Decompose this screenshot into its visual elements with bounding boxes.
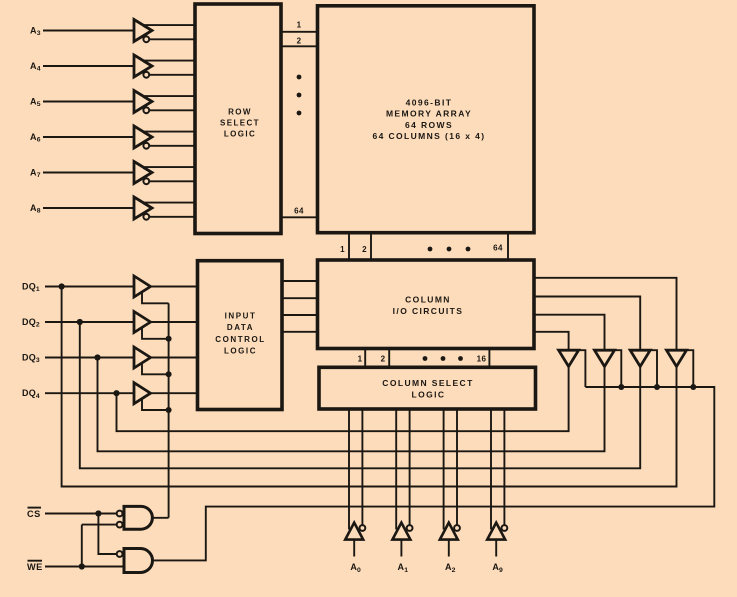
wire A1 true output (395, 409, 397, 530)
output buffer T1 (559, 350, 579, 366)
ellipsis dot array bottom 3 (466, 247, 471, 252)
wire A4 input (43, 65, 134, 67)
wire G1 output (152, 517, 168, 519)
svg-text:2: 2 (297, 36, 302, 45)
and-gate G1 (chip select / write) (124, 506, 152, 529)
ellipsis dot row 1 (297, 75, 302, 80)
bubble G2 input 1 (117, 551, 123, 557)
wire DQ1 input (45, 286, 134, 288)
output buffer T2 (595, 350, 615, 366)
wire A5 true output (144, 95, 196, 97)
wire output enable bus (153, 387, 715, 560)
wire A9 complement output (503, 409, 505, 525)
svg-text:LOGIC: LOGIC (224, 130, 256, 139)
buffer A0 (345, 523, 363, 540)
bubble A0 complement output (360, 525, 366, 531)
block COLUMN I/O CIRCUITS (318, 260, 535, 349)
wire A0 true output (348, 409, 350, 530)
wire A7 true output (144, 166, 196, 168)
svg-text:4096-BIT: 4096-BIT (406, 98, 453, 108)
svg-text:2: 2 (362, 245, 367, 254)
wire write enable vertical (168, 303, 170, 518)
svg-text:2: 2 (381, 355, 386, 364)
ellipsis dot row 3 (297, 111, 302, 116)
wire A8 input (43, 207, 134, 209)
svg-text:COLUMN: COLUMN (405, 295, 451, 305)
wire T3 enable stub (650, 350, 657, 387)
svg-text:CONTROL: CONTROL (215, 335, 265, 344)
wire column io out 2 (534, 297, 640, 351)
wire A9 true output (490, 409, 492, 530)
wire A7 complement output (149, 180, 195, 182)
wire DQ1 pin to output buffer (62, 287, 677, 487)
wire A1 input stub (400, 540, 402, 557)
bubble A2 complement output (454, 525, 460, 531)
wire DQ1 buffer enable step (142, 292, 169, 303)
junction DQ3 node (94, 354, 100, 360)
wire A2 input stub (448, 540, 450, 557)
wire row line 64 (281, 216, 318, 218)
bubble A4 complement output (143, 72, 149, 78)
junction DQ4 node (113, 390, 119, 396)
wire A8 true output (144, 202, 196, 204)
wire data control to column io 4 (282, 331, 318, 333)
svg-text:SELECT: SELECT (220, 118, 260, 127)
junction DQ1 node (59, 283, 65, 289)
buffer A3 (134, 20, 152, 42)
wire DQ2 input (45, 321, 134, 323)
svg-text:1: 1 (297, 21, 302, 30)
svg-text:MEMORY ARRAY: MEMORY ARRAY (386, 109, 472, 119)
wire A0 input stub (353, 540, 355, 557)
buffer A7 (134, 162, 152, 184)
svg-text:ROW: ROW (228, 108, 252, 117)
ellipsis dot col select 2 (441, 356, 446, 361)
svg-text:16: 16 (477, 355, 487, 364)
wire A8 complement output (149, 216, 195, 218)
bubble A1 complement output (407, 525, 413, 531)
wire WE vertical (81, 525, 83, 567)
wire select line 1 (364, 349, 366, 368)
buffer A1 (392, 523, 410, 540)
bubble G1 input 1 (117, 511, 123, 517)
wire row line 1 (281, 31, 318, 33)
wire A3 complement output (149, 38, 195, 40)
bubble A5 complement output (143, 107, 149, 113)
wire A9 input stub (495, 540, 497, 557)
wire DQ4 input (45, 392, 134, 394)
bubble A6 complement output (143, 143, 149, 149)
wire data control to column io 3 (282, 314, 318, 316)
bubble A7 complement output (143, 178, 149, 184)
junction enable bus 3 (654, 384, 660, 390)
wire DQ2 buffer enable step (142, 327, 169, 338)
svg-text:64 COLUMNS (16 x 4): 64 COLUMNS (16 x 4) (372, 131, 485, 141)
buffer A6 (134, 126, 152, 148)
wire A4 true output (144, 60, 196, 62)
wire A1 complement output (409, 409, 411, 525)
ellipsis dot array bottom 1 (428, 247, 433, 252)
junction DQ2 node (77, 319, 83, 325)
bubble A9 complement output (502, 525, 508, 531)
block ROW SELECT LOGIC (195, 4, 281, 234)
wire column io out 1 (534, 278, 677, 350)
overline WE (28, 560, 43, 562)
svg-text:I/O CIRCUITS: I/O CIRCUITS (393, 306, 464, 316)
buffer DQ3 (134, 347, 151, 368)
wire DQ3 input (45, 357, 134, 359)
wire T4 enable stub (687, 350, 694, 387)
buffer A8 (134, 197, 152, 219)
wire A5 input (43, 101, 134, 103)
wire A3 input (43, 30, 134, 32)
wire row line 2 (281, 45, 318, 47)
wire DQ1 buffer output (151, 286, 198, 288)
wire A2 true output (443, 409, 445, 530)
wire A6 input (43, 136, 134, 138)
svg-text:64: 64 (294, 207, 304, 216)
wire DQ2 pin to output buffer (80, 322, 640, 468)
junction write enable 3 (166, 407, 172, 413)
ellipsis dot array bottom 2 (447, 247, 452, 252)
wire T2 enable stub (615, 350, 622, 387)
wire select line 2 (388, 349, 390, 368)
junction write enable 1 (166, 336, 172, 342)
wire DQ4 buffer enable step (142, 399, 169, 410)
svg-text:LOGIC: LOGIC (412, 390, 446, 400)
wire select line 16 (488, 349, 490, 368)
buffer DQ2 (134, 312, 151, 333)
output buffer T3 (630, 350, 650, 366)
bubble A3 complement output (143, 36, 149, 42)
wire DQ3 pin to output buffer (98, 358, 605, 452)
svg-text:64 ROWS: 64 ROWS (405, 120, 453, 130)
block 4096-BIT MEMORY ARRAY (318, 6, 535, 233)
buffer A4 (134, 55, 152, 77)
overline CS (28, 507, 42, 509)
junction CS node (95, 510, 101, 516)
ellipsis dot col select 3 (458, 356, 463, 361)
svg-text:1: 1 (358, 355, 363, 364)
wire A2 complement output (456, 409, 458, 525)
wire column io out 4 (534, 332, 569, 350)
junction enable bus 4 (690, 384, 696, 390)
svg-text:COLUMN SELECT: COLUMN SELECT (382, 378, 473, 388)
svg-text:1: 1 (340, 245, 345, 254)
wire DQ3 buffer output (151, 357, 198, 359)
buffer A2 (440, 523, 458, 540)
wire data control to column io 2 (282, 297, 318, 299)
buffer A9 (487, 523, 505, 540)
wire DQ2 buffer output (151, 321, 198, 323)
and-gate G2 (read enable) (124, 549, 153, 573)
wire A4 complement output (149, 74, 195, 76)
bubble A8 complement output (143, 214, 149, 220)
wire WE to gate G1 (82, 524, 118, 526)
svg-text:64: 64 (493, 244, 503, 253)
wire DQ3 buffer enable step (142, 363, 169, 374)
buffer A5 (134, 91, 152, 113)
output buffer T4 (667, 350, 687, 366)
ellipsis dot row 2 (297, 93, 302, 98)
junction WE node (79, 563, 85, 569)
wire A3 true output (144, 24, 196, 26)
svg-text:DATA: DATA (227, 323, 254, 332)
wire DQ4 pin to output buffer (117, 367, 569, 432)
buffer DQ1 (134, 276, 151, 297)
wire A5 complement output (149, 109, 195, 111)
svg-text:CS: CS (27, 509, 41, 519)
wire CS to gate G2 (98, 514, 117, 555)
wire column io out 3 (534, 315, 605, 351)
wire column line 1 (348, 233, 350, 261)
buffer DQ4 (134, 383, 151, 404)
wire T1 enable stub (579, 350, 586, 387)
block COLUMN SELECT LOGIC (319, 367, 536, 409)
wire column line 64 (507, 233, 509, 261)
junction enable bus 2 (618, 384, 624, 390)
wire DQ4 buffer output (151, 392, 198, 394)
svg-text:LOGIC: LOGIC (224, 346, 257, 355)
wire column line 2 (370, 233, 372, 261)
wire data control to column io 1 (282, 280, 318, 282)
wire A0 complement output (361, 409, 363, 525)
ellipsis dot col select 1 (423, 356, 428, 361)
svg-text:WE: WE (27, 562, 43, 572)
wire A6 complement output (149, 145, 195, 147)
wire A6 true output (144, 131, 196, 133)
wire CS input (45, 513, 117, 515)
wire A7 input (43, 172, 134, 174)
wire WE input (45, 566, 124, 568)
junction write enable 2 (166, 371, 172, 377)
bubble G1 input 2 (117, 522, 123, 528)
svg-text:INPUT: INPUT (225, 312, 257, 321)
block INPUT DATA CONTROL LOGIC (198, 261, 283, 410)
